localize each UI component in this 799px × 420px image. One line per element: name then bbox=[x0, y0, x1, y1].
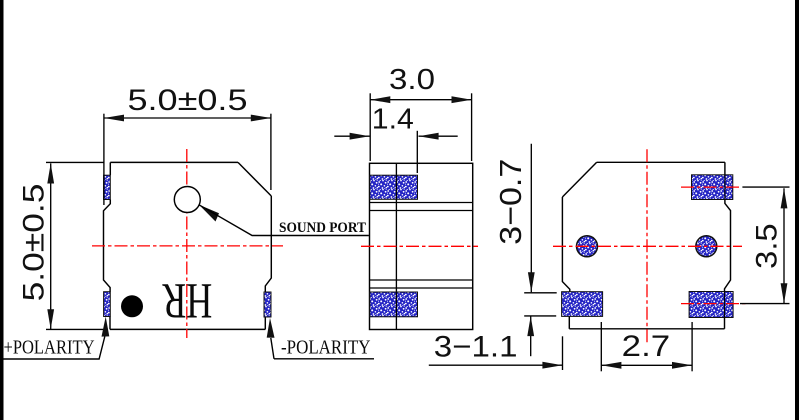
polarity dot marker bbox=[121, 295, 143, 317]
side view internal vertical line over pads bbox=[395, 175, 397, 317]
dimension 3-1.1: leader line with right arrowhead bbox=[429, 364, 563, 366]
left black border bar bbox=[0, 0, 4, 420]
dimension 3.5: bottom arrowhead bbox=[781, 283, 788, 303]
bottom view body edge segments visible through right pads bbox=[724, 175, 726, 318]
+POLARITY leader underline bbox=[0, 337, 105, 360]
pad P3 bottom-right (top view) bbox=[264, 292, 271, 317]
dimension 3-1.1: extension line bbox=[562, 336, 564, 370]
dimension 5.0±0.5 vertical: dimension line bbox=[50, 163, 52, 329]
dimension 1.4: left tail with arrowhead pointing right bbox=[334, 135, 369, 137]
pad P2 bottom-left (top view) bbox=[104, 292, 111, 317]
dimension 3-0.7: extension line at pad top bbox=[524, 292, 557, 294]
dimension 3.0: left arrowhead bbox=[370, 96, 390, 103]
sound port hole circle bbox=[174, 187, 200, 213]
top view right edge below pad bbox=[264, 317, 266, 329]
bottom view pad bottom-left bbox=[562, 292, 603, 317]
dimension 1.4: extension line right bbox=[416, 131, 418, 173]
svg-text:5.0±0.5: 5.0±0.5 bbox=[17, 184, 50, 302]
dimension 3.0: extension line right bbox=[471, 93, 473, 161]
top view left edge above top-left pad bbox=[109, 162, 111, 175]
side view bottom pad bbox=[370, 292, 418, 317]
dimension 2.7: left arrowhead bbox=[601, 362, 621, 369]
svg-text:2.7: 2.7 bbox=[622, 330, 671, 363]
dimension 2.7: dimension line bbox=[601, 364, 692, 366]
bottom view left edge with jog above bottom-left pad bbox=[562, 197, 569, 292]
dimension 3.0: extension line left bbox=[369, 93, 371, 161]
dimension 5.0±0.5 horizontal: left arrowhead bbox=[104, 115, 124, 122]
dimension 5.0±0.5 vertical: extension line top bbox=[46, 161, 104, 163]
side view body rectangle bbox=[370, 163, 473, 329]
dimension 3-0.7: lower line with up arrowhead bbox=[530, 316, 532, 356]
top view body outline top edge bbox=[110, 161, 238, 163]
svg-text:SOUND PORT: SOUND PORT bbox=[279, 220, 366, 236]
pad P1 top-left (top view) bbox=[104, 175, 111, 199]
bottom view chamfer top-left bbox=[562, 162, 596, 197]
red centerline through bottom-right pad bbox=[681, 303, 747, 305]
bottom view left edge below bottom-left pad bbox=[568, 316, 570, 328]
+POLARITY leader arrowhead bbox=[102, 317, 110, 337]
dimension 3-0.7: extension line at pad bottom bbox=[524, 315, 556, 317]
svg-text:HR: HR bbox=[162, 273, 212, 329]
svg-text:-POLARITY: -POLARITY bbox=[281, 337, 371, 359]
side view internal horizontal line 2 bbox=[370, 210, 473, 212]
top view left edge between pads bbox=[104, 200, 111, 292]
dimension 5.0±0.5 horizontal: dimension line bbox=[104, 117, 271, 119]
dimension 5.0±0.5 vertical: top arrowhead bbox=[47, 163, 54, 183]
bottom view top edge bbox=[597, 161, 725, 163]
top view left edge below bottom-left pad bbox=[109, 317, 111, 330]
sound port leader line bbox=[199, 205, 369, 236]
red horizontal centerline (side view) bbox=[361, 245, 478, 247]
right black border bar bbox=[795, 0, 799, 420]
svg-text:3.0: 3.0 bbox=[389, 64, 435, 96]
red vertical centerline (top view) bbox=[186, 149, 188, 338]
dimension 3.5: extension line top bbox=[742, 186, 789, 188]
dimension 3.0: right arrowhead bbox=[452, 96, 472, 103]
svg-text:+POLARITY: +POLARITY bbox=[4, 337, 95, 359]
dimension 2.7: extension line right bbox=[691, 322, 693, 371]
bottom view right edge between pads bbox=[725, 200, 731, 292]
top view bottom edge bbox=[110, 328, 265, 330]
dimension 5.0±0.5 horizontal: right arrowhead bbox=[251, 115, 271, 122]
dimension 3.5: dimension line bbox=[783, 188, 785, 303]
sound port leader arrowhead bbox=[199, 205, 219, 222]
bottom view electrode circle right bbox=[696, 236, 717, 257]
dimension 5.0±0.5 vertical: extension line bottom bbox=[46, 328, 108, 330]
bottom view pad bottom-right bbox=[689, 292, 733, 318]
dimension 1.4: right tail with arrowhead pointing left bbox=[419, 135, 458, 137]
dimension 5.0±0.5 vertical: bottom arrowhead bbox=[47, 309, 54, 329]
bottom view right edge below bottom-right pad bbox=[724, 318, 726, 329]
bottom view right edge above top-right pad bbox=[724, 162, 726, 175]
side view internal horizontal line 4 bbox=[370, 287, 473, 289]
top view chamfer top-right corner bbox=[238, 162, 271, 196]
red horizontal centerline (top view) bbox=[92, 245, 283, 247]
svg-text:5.0±0.5: 5.0±0.5 bbox=[128, 84, 248, 117]
dimension 3-0.7: upper dimension line with down arrowhead bbox=[530, 144, 532, 292]
bottom view pad top-right bbox=[692, 175, 733, 200]
dimension 5.0±0.5 horizontal: extension line left bbox=[103, 114, 105, 205]
top view right edge bbox=[265, 196, 271, 292]
svg-text:3−0.7: 3−0.7 bbox=[493, 159, 528, 245]
svg-text:3−1.1: 3−1.1 bbox=[434, 330, 518, 363]
side view internal horizontal line 3 bbox=[370, 279, 473, 281]
dimension 2.7: right arrowhead bbox=[672, 362, 692, 369]
red horizontal centerline (bottom view) bbox=[553, 245, 742, 247]
bottom view bottom edge bbox=[569, 328, 724, 330]
-POLARITY leader underline bbox=[271, 338, 374, 359]
dimension 5.0±0.5 horizontal: extension line right bbox=[270, 114, 272, 190]
dimension 3.5: extension line bottom bbox=[740, 303, 790, 305]
-POLARITY leader arrowhead bbox=[267, 318, 275, 338]
dimension 2.7: extension line left bbox=[600, 322, 602, 371]
side view internal horizontal line 1 bbox=[370, 202, 473, 204]
side view internal vertical line bbox=[395, 163, 397, 329]
bottom view electrode circle left bbox=[577, 236, 598, 257]
red vertical centerline (bottom view) bbox=[646, 149, 648, 344]
svg-text:3.5: 3.5 bbox=[750, 223, 783, 269]
dimension 3.0: dimension line bbox=[370, 99, 471, 101]
svg-text:1.4: 1.4 bbox=[372, 104, 414, 136]
dimension 3.5: top arrowhead bbox=[781, 188, 788, 208]
red centerline through top-right pad bbox=[681, 186, 742, 188]
side view top pad bbox=[370, 175, 418, 199]
